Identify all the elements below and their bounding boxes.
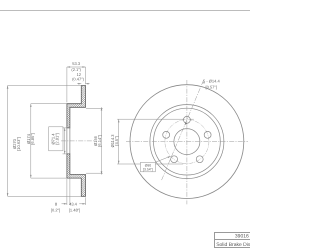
svg-text:39016: 39016 (235, 234, 249, 240)
svg-text:Ø270[10.63"]: Ø270[10.63"] (12, 137, 21, 151)
svg-text:[3.54"]: [3.54"] (143, 168, 153, 172)
svg-text:53.3: 53.3 (72, 61, 81, 66)
svg-text:Ø174[6.85"]: Ø174[6.85"] (26, 133, 35, 144)
svg-text:Ø156[6.14"]: Ø156[6.14"] (93, 135, 102, 146)
svg-text:43.4: 43.4 (69, 201, 78, 206)
svg-text:Ø71.4[2.81"]: Ø71.4[2.81"] (50, 133, 59, 145)
svg-text:[0.2"]: [0.2"] (51, 207, 60, 212)
svg-text:[1.48"]: [1.48"] (69, 207, 80, 212)
svg-text:(0.47"): (0.47") (72, 77, 85, 82)
svg-text:5 - Ø14.4: 5 - Ø14.4 (203, 78, 220, 83)
svg-text:Solid Brake Disc: Solid Brake Disc (216, 242, 250, 248)
svg-text:[0.57"]: [0.57"] (206, 84, 217, 89)
